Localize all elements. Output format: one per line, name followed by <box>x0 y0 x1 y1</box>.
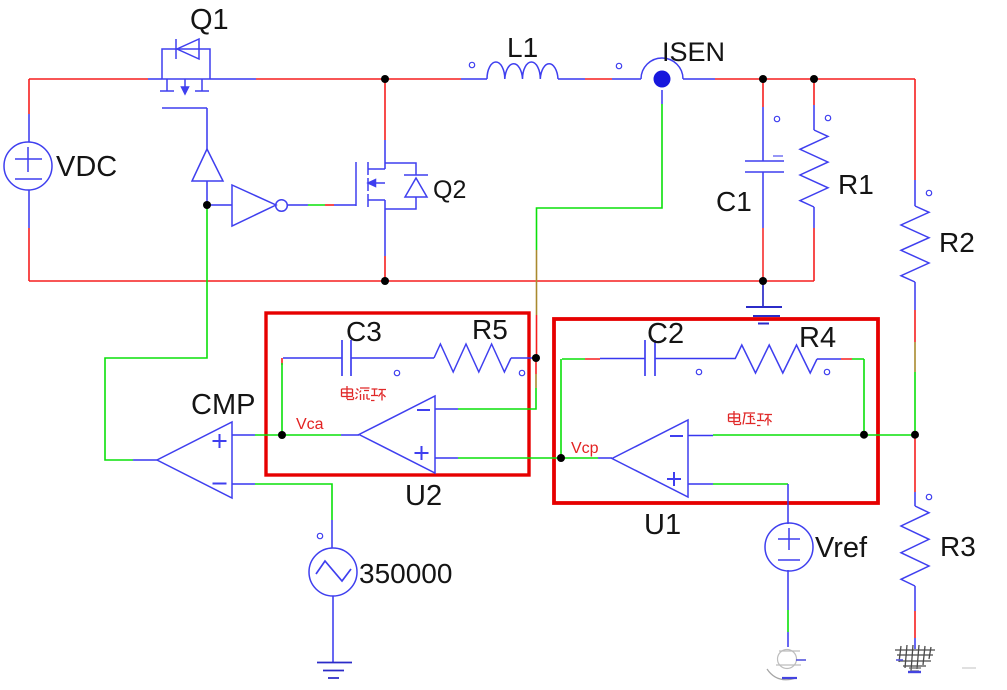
svg-text:Vref: Vref <box>815 532 868 564</box>
svg-text:Vcp: Vcp <box>571 440 599 457</box>
wire red C1 lower lead <box>762 228 764 281</box>
wire blue C3 R5 leads <box>283 357 536 359</box>
source ramp 350000 <box>309 548 357 596</box>
wire blue ISEN stub <box>661 90 663 104</box>
wire blue C2 R4 leads <box>600 358 841 361</box>
wire green inverter output <box>308 204 325 206</box>
wire green below Vref <box>787 610 789 632</box>
wire blue right column leads <box>914 180 916 649</box>
wire green Vcp net <box>458 359 598 458</box>
wire C1 R1 top leads red <box>763 79 814 107</box>
wire blue Vref leads <box>787 484 789 647</box>
pin circle ramp <box>317 533 322 538</box>
wire blue Q2 leads <box>287 140 385 256</box>
wire right column red below node <box>914 310 916 638</box>
svg-text:Q1: Q1 <box>190 4 229 36</box>
wire blue C1 leads <box>762 107 764 228</box>
inductor L1 <box>487 62 558 79</box>
capacitor C2 <box>645 340 655 376</box>
wire blue Q1 gate and buffer <box>207 108 232 205</box>
resistor R4 <box>735 345 817 373</box>
ground artifact under Vref <box>767 650 801 680</box>
pin circle L1 right <box>616 63 621 68</box>
op-amp U2 <box>359 396 435 473</box>
svg-text:350000: 350000 <box>359 558 452 589</box>
wire green U2 inverting input <box>458 388 536 409</box>
transistor Q2 <box>356 162 428 209</box>
svg-text:U2: U2 <box>405 480 442 512</box>
svg-text:Vca: Vca <box>296 416 324 433</box>
svg-text:C3: C3 <box>346 316 382 347</box>
pin circle C2 <box>696 369 701 374</box>
capacitor C1 <box>745 156 784 172</box>
svg-text:VDC: VDC <box>56 151 117 183</box>
svg-text:CMP: CMP <box>191 389 255 421</box>
svg-text:ISEN: ISEN <box>662 37 725 67</box>
svg-text:R5: R5 <box>472 314 508 345</box>
wire blue VDC leads <box>28 114 30 228</box>
wire ISEN drop red lower <box>536 315 538 358</box>
wire blue U1 stubs <box>598 436 713 485</box>
wire top rail red segments <box>29 79 915 180</box>
resistor R3 <box>901 506 929 586</box>
wire gradient segment right column <box>914 342 916 372</box>
wire gate drive red bits <box>325 204 334 206</box>
wire blue R1 leads <box>813 105 815 228</box>
feedback box U1 (voltage loop) <box>554 319 878 503</box>
wire blue top rail stubs <box>148 78 715 80</box>
wire small red bits near C2 R4 <box>282 358 852 365</box>
buffer gate driver <box>192 149 223 181</box>
label voltage loop (CJK strokes) <box>729 411 773 426</box>
ground under C1 <box>746 283 782 324</box>
wire green U1 noninverting to Vref <box>713 483 788 485</box>
op-amp U1 <box>612 420 688 497</box>
svg-text:U1: U1 <box>644 509 681 541</box>
source Vref <box>765 523 813 571</box>
wire gradient segment ISEN drop <box>536 250 538 315</box>
svg-text:Q2: Q2 <box>433 176 466 204</box>
wire green right column above node <box>914 372 916 435</box>
svg-text:C1: C1 <box>716 186 752 217</box>
source VDC <box>4 142 52 190</box>
ground artifact under R3 <box>895 645 935 671</box>
wire bottom rail red <box>29 228 814 281</box>
comparator CMP <box>157 422 232 498</box>
pin circle L1 left <box>469 62 474 67</box>
current sensor ISEN <box>641 58 683 79</box>
ground under ramp <box>317 663 352 679</box>
wire Q2 drain source red <box>384 79 386 281</box>
wire green CMP output to gate drivers <box>105 205 207 460</box>
svg-text:C2: C2 <box>647 318 684 350</box>
pin circle R5 <box>519 370 524 375</box>
inverter gate driver <box>232 185 287 226</box>
wire gradient segment U2 inverting branch <box>535 374 537 388</box>
svg-text:L1: L1 <box>507 32 538 63</box>
transistor Q1 <box>160 39 210 108</box>
wire green Vca net <box>255 363 341 435</box>
svg-text:R4: R4 <box>799 322 836 354</box>
pin circle R3 <box>926 494 931 499</box>
pin circle R4 <box>824 369 829 374</box>
resistor R1 <box>800 130 828 207</box>
svg-text:R3: R3 <box>940 531 976 562</box>
wire blue ramp source leads <box>332 520 333 662</box>
pin circle C1 <box>774 116 779 121</box>
wire green U1 inverting input <box>713 359 915 435</box>
wire blue U2 stubs <box>341 409 458 458</box>
label current loop (CJK strokes) <box>342 386 387 401</box>
svg-text:R1: R1 <box>838 169 874 200</box>
pin circle C3 <box>394 370 399 375</box>
wire green ISEN sense drop <box>537 104 663 250</box>
svg-text:R2: R2 <box>939 227 975 258</box>
resistor R5 <box>434 344 511 372</box>
pin circle R1 <box>825 115 830 120</box>
pin circle R2 <box>926 190 931 195</box>
wire blue CMP stubs <box>133 435 255 484</box>
wire green CMP inverting to ramp <box>255 484 332 520</box>
capacitor C3 <box>342 340 351 376</box>
feedback box U2 (current loop) <box>266 313 529 475</box>
wire left branch red <box>28 79 30 281</box>
resistor R2 <box>901 206 929 282</box>
